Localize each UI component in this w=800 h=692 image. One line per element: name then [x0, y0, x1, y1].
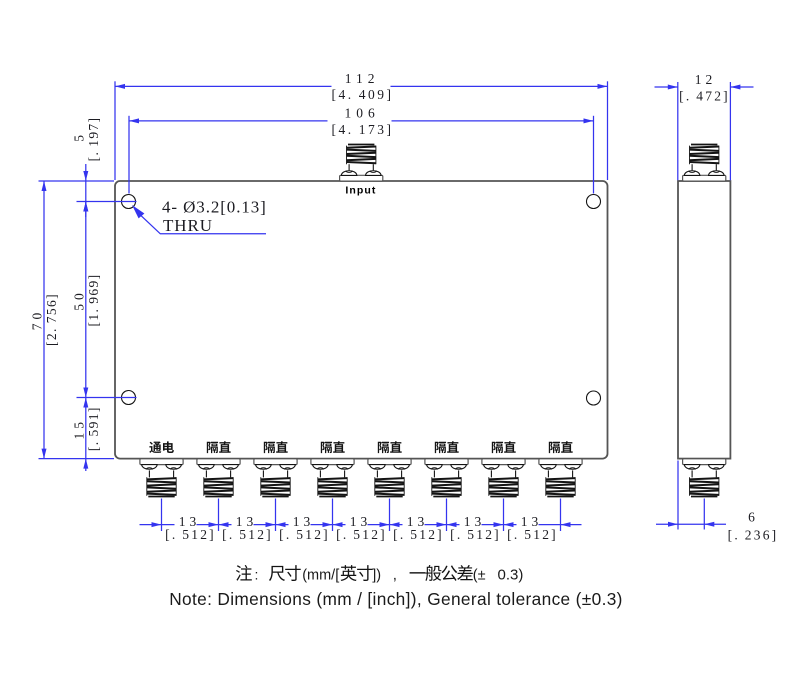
extension line top edge (left) [39, 180, 115, 182]
svg-text:106: 106 [344, 106, 379, 121]
divider body outline (side view) [678, 181, 730, 459]
dim 13 chain line segments [140, 524, 175, 526]
mounting hole bottom-right [587, 391, 601, 405]
connector threads [546, 478, 575, 479]
svg-text:(±: (± [473, 568, 486, 584]
connector threads [690, 478, 719, 479]
connector pin [205, 470, 207, 477]
mounting hole bottom-left [122, 391, 136, 405]
dim 6 extension lines [677, 461, 679, 530]
label 隔直 [207, 442, 218, 453]
connector nut dome [142, 465, 158, 470]
svg-text:5: 5 [71, 135, 86, 142]
connector base flange [425, 459, 468, 465]
connector base flange [482, 459, 525, 465]
connector pin [547, 470, 549, 477]
dim 12 extension lines [677, 82, 679, 180]
connector pin [691, 470, 693, 477]
connector thread cap [376, 496, 402, 498]
connector nut dome [337, 465, 353, 470]
connector pin [173, 470, 175, 477]
connector nut dome [223, 465, 239, 470]
extension line through bottom-left hole [77, 397, 137, 399]
connector base flange [340, 175, 383, 181]
connector nut dome [370, 465, 386, 470]
label 隔直 [321, 442, 332, 453]
dim 13 chain arrows [152, 522, 162, 527]
dim 106 extension lines [128, 116, 130, 194]
connector nut dome [366, 171, 382, 176]
leader arrow to mounting hole [132, 205, 144, 218]
connector threads [375, 478, 404, 479]
connector base flange [683, 459, 726, 465]
dim 13 extension line (connector centerline) [218, 499, 220, 532]
connector pin [572, 470, 574, 477]
connector pin [287, 470, 289, 477]
svg-text:112: 112 [345, 71, 380, 86]
connector threads [489, 478, 518, 479]
svg-text:[. 512]: [. 512] [393, 527, 444, 542]
connector nut dome [341, 171, 357, 176]
connector pin [715, 164, 717, 170]
svg-text:4- Ø3.2[0.13]: 4- Ø3.2[0.13] [162, 198, 267, 217]
connector nut dome [684, 465, 700, 470]
dim 13 extension line (connector centerline) [446, 499, 448, 532]
connector threads [318, 478, 347, 479]
svg-text::: : [255, 567, 259, 583]
label 隔直 [378, 442, 389, 453]
connector base flange [311, 459, 354, 465]
connector pin [372, 164, 374, 170]
dim 15 line [85, 398, 87, 472]
svg-text:[. 512]: [. 512] [222, 527, 273, 542]
connector nut dome [394, 465, 410, 470]
label 隔直 [435, 442, 446, 453]
connector pin [458, 470, 460, 477]
dim 112 extension lines [114, 81, 116, 180]
connector threads [347, 147, 376, 148]
label 隔直 [492, 442, 503, 453]
connector pin [262, 470, 264, 477]
svg-text:70: 70 [30, 309, 45, 331]
svg-text:[. 512]: [. 512] [165, 527, 216, 542]
connector threads [690, 147, 719, 148]
dim 13 extension line (connector centerline) [389, 499, 391, 532]
connector pin [230, 470, 232, 477]
connector pin [515, 470, 517, 477]
label 通电 [149, 442, 161, 453]
dim 70 line [43, 181, 45, 459]
connector pin [348, 164, 350, 170]
connector thread cap [547, 496, 573, 498]
svg-text:[. 512]: [. 512] [450, 527, 501, 542]
svg-text:15: 15 [71, 418, 86, 440]
connector pin [376, 470, 378, 477]
dim 13 extension line (connector centerline) [161, 499, 163, 532]
connector thread cap [490, 496, 516, 498]
connector threads [147, 478, 176, 479]
svg-text:[. 512]: [. 512] [279, 527, 330, 542]
svg-text:Note: Dimensions (mm / [inch]): Note: Dimensions (mm / [inch]), General … [169, 589, 623, 609]
svg-text:50: 50 [71, 289, 86, 311]
svg-text:0.3): 0.3) [498, 567, 524, 584]
connector base flange [140, 459, 183, 465]
connector threads [432, 478, 461, 479]
dim 13 extension line (connector centerline) [332, 499, 334, 532]
connector base flange [539, 459, 582, 465]
svg-text:[. 512]: [. 512] [336, 527, 387, 542]
svg-text:6: 6 [748, 510, 755, 525]
connector nut dome [313, 465, 329, 470]
dim 13 extension line (connector centerline) [503, 499, 505, 532]
connector nut dome [709, 171, 725, 176]
svg-text:[. 197]: [. 197] [86, 117, 101, 162]
dim 13 extension line (connector centerline) [275, 499, 277, 532]
svg-text:Input: Input [345, 185, 376, 197]
connector threads [261, 478, 290, 479]
connector nut dome [484, 465, 500, 470]
connector nut dome [565, 465, 581, 470]
connector thread cap [691, 144, 717, 146]
connector nut dome [166, 465, 182, 470]
svg-text:THRU: THRU [163, 216, 213, 235]
connector thread cap [205, 496, 231, 498]
connector thread cap [691, 496, 717, 498]
connector pin [401, 470, 403, 477]
svg-text:,: , [393, 567, 397, 584]
connector pin [715, 470, 717, 477]
connector base flange [254, 459, 297, 465]
dim 13 extension line (connector centerline) [560, 499, 562, 532]
dim 112 line [115, 85, 332, 87]
connector thread cap [148, 496, 174, 498]
connector pin [490, 470, 492, 477]
connector pin [319, 470, 321, 477]
connector thread cap [319, 496, 345, 498]
connector nut dome [541, 465, 557, 470]
note line 1 (Chinese) [236, 565, 252, 581]
connector nut dome [427, 465, 443, 470]
connector thread cap [433, 496, 459, 498]
divider body outline (front view) [115, 181, 608, 459]
svg-text:12: 12 [695, 72, 717, 87]
dim 50 line [85, 202, 87, 398]
extension line through top-left hole [77, 201, 137, 203]
connector pin [433, 470, 435, 477]
connector base flange [683, 175, 726, 181]
leader line [140, 215, 266, 234]
connector nut dome [709, 465, 725, 470]
svg-text:[1. 969]: [1. 969] [86, 274, 101, 327]
connector nut dome [508, 465, 524, 470]
connector threads [204, 478, 233, 479]
connector nut dome [256, 465, 272, 470]
dim 6 line [656, 523, 726, 525]
svg-text:[4. 173]: [4. 173] [331, 122, 393, 137]
connector pin [691, 164, 693, 170]
dim 5 line [85, 164, 87, 217]
svg-text:(mm/[: (mm/[ [302, 568, 339, 584]
svg-text:]): ]) [372, 568, 381, 584]
connector nut dome [280, 465, 296, 470]
dim 12 line [655, 86, 678, 88]
extension line bottom edge (left) [39, 458, 115, 460]
mounting hole top-right [587, 195, 601, 209]
label 隔直 [549, 442, 560, 453]
connector base flange [368, 459, 411, 465]
connector base flange [197, 459, 240, 465]
connector thread cap [262, 496, 288, 498]
label 隔直 [264, 442, 275, 453]
mounting hole top-left [122, 195, 136, 209]
svg-text:[2. 756]: [2. 756] [44, 293, 59, 346]
connector pin [148, 470, 150, 477]
svg-text:[. 512]: [. 512] [507, 527, 558, 542]
svg-text:[. 472]: [. 472] [679, 89, 730, 104]
connector nut dome [451, 465, 467, 470]
svg-text:[. 236]: [. 236] [728, 527, 779, 542]
svg-text:[4. 409]: [4. 409] [331, 87, 393, 102]
connector nut dome [684, 171, 700, 176]
svg-text:[. 591]: [. 591] [86, 406, 101, 451]
dim 106 line [129, 120, 328, 122]
connector thread cap [348, 144, 374, 146]
connector pin [344, 470, 346, 477]
connector nut dome [199, 465, 215, 470]
